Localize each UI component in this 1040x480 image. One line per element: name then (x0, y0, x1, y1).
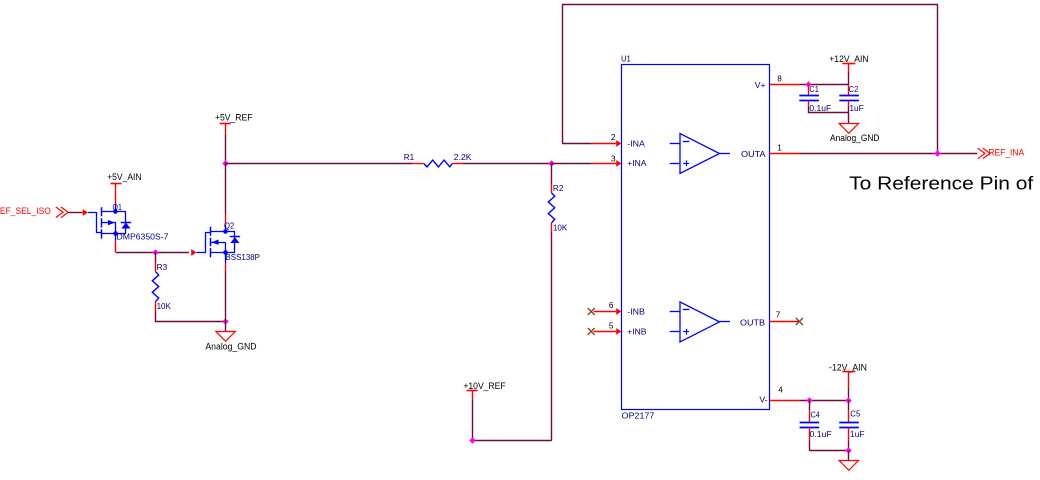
wire REF_SEL_ISO to Q1 gate (68, 212, 82, 214)
svg-text:BSS138P: BSS138P (226, 252, 261, 262)
wire junction down to Q2 drain (225, 163, 227, 215)
node junction C5 top (845, 397, 851, 403)
op-amp amplifier B symbol (680, 302, 720, 342)
wire +5V_REF junction to R1 (225, 163, 413, 165)
svg-text:10K: 10K (553, 223, 568, 233)
wire R2 down (551, 232, 553, 440)
resistor R2 (551, 163, 553, 183)
wire -12V_AIN down (848, 388, 850, 400)
svg-text:V-: V- (759, 394, 767, 404)
ground bottom right (839, 461, 858, 471)
transistor Q1 (88, 213, 102, 233)
svg-text:To Reference Pin of: To Reference Pin of (849, 173, 1034, 193)
wire OUTA to REF_INA (800, 153, 978, 155)
node junction C1 top (805, 81, 811, 87)
wire Q1 source to R3 and Q2 gate (116, 252, 189, 254)
svg-text:U1: U1 (621, 53, 631, 63)
resistor R3 (155, 252, 157, 262)
wire Q2 source down to ground junction (225, 271, 227, 322)
wire feedback loop top (562, 4, 938, 6)
capacitor C1 (808, 84, 810, 95)
svg-text:1uF: 1uF (850, 429, 865, 439)
wire C1 bottom to C2 bottom (809, 106, 849, 113)
op-amp amplifier A symbol (680, 134, 720, 174)
svg-text:+INB: +INB (627, 327, 646, 337)
pin 5 +INB no-connect (588, 328, 595, 335)
svg-text:V+: V+ (755, 80, 766, 90)
wire to pin 2 (562, 143, 592, 145)
svg-text:R2: R2 (553, 183, 564, 193)
svg-text:Analog_GND: Analog_GND (830, 133, 880, 143)
svg-text:OUTA: OUTA (741, 149, 766, 159)
wire feedback loop right vertical (937, 4, 939, 153)
wire +5V_REF down to junction (225, 134, 227, 163)
wire Q1 source pin (115, 241, 117, 253)
svg-text:+INA: +INA (627, 158, 646, 168)
capacitor C2 (848, 84, 850, 95)
svg-text:C4: C4 (811, 409, 821, 419)
node junction feedback/REF_INA (934, 150, 940, 156)
svg-text:C1: C1 (809, 84, 819, 94)
wire bottom horizontal to +10V_REF (472, 440, 552, 442)
svg-text:C5: C5 (850, 409, 860, 419)
svg-text:0.1uF: 0.1uF (809, 103, 831, 113)
pin 3 +INA (592, 163, 616, 165)
svg-text:2.2K: 2.2K (454, 152, 472, 162)
wire junction to pin 3 (552, 163, 592, 165)
node REF_SEL_ISO off-page connector (56, 207, 63, 218)
pin 7 OUTB no-connect (770, 321, 800, 323)
node junction R1/R2/+INA (548, 160, 554, 166)
node junction C5 bottom (845, 447, 851, 453)
svg-text:Q2: Q2 (224, 220, 234, 230)
pin 4 V- (770, 400, 800, 402)
wire feedback loop left vertical (562, 4, 564, 143)
svg-text:Q1: Q1 (113, 202, 123, 212)
svg-text:1: 1 (777, 144, 782, 153)
wire pin 4 to caps (800, 400, 849, 402)
svg-text:+5V_REF: +5V_REF (215, 111, 253, 122)
wire arrow into Q2 gate (191, 249, 196, 256)
wire Q2 source pin (225, 264, 227, 271)
wire pin 8 to caps (800, 84, 849, 86)
node junction at Analog_GND (222, 318, 228, 324)
node junction +10V_REF (469, 437, 475, 443)
svg-text:R3: R3 (157, 262, 168, 272)
wire C4 bottom to C5 bottom (809, 450, 849, 452)
pin 8 V+ (770, 84, 800, 86)
wire C2 bottom to ground (848, 106, 850, 123)
svg-text:REF_SEL_ISO: REF_SEL_ISO (0, 206, 51, 217)
wire R1 to R2 junction (463, 163, 552, 165)
wire R3 to ground row (156, 312, 226, 322)
svg-text:2: 2 (611, 133, 616, 142)
svg-text:-INA: -INA (627, 138, 645, 148)
capacitor C5 (848, 400, 850, 410)
resistor R1 (413, 163, 424, 165)
svg-text:R1: R1 (404, 152, 415, 162)
pin 2 -INA (592, 143, 616, 145)
wire +10V_REF down (472, 399, 474, 440)
svg-text:REF_INA: REF_INA (988, 148, 1024, 159)
wire arrow into Q1 gate (82, 212, 83, 214)
node junction C4 top (806, 397, 812, 403)
node REF_INA off-page connector (978, 148, 985, 159)
svg-text:OUTB: OUTB (740, 318, 765, 328)
capacitor C4 (809, 400, 811, 410)
svg-text:10K: 10K (157, 301, 172, 311)
svg-text:C2: C2 (849, 84, 859, 94)
svg-text:6: 6 (609, 301, 614, 310)
ground Analog_GND top right (839, 124, 858, 134)
pin 1 OUTA (770, 153, 800, 155)
svg-text:+12V_AIN: +12V_AIN (829, 53, 868, 64)
svg-text:8: 8 (777, 74, 782, 83)
transistor Q2 (196, 233, 210, 253)
svg-text:+10V_REF: +10V_REF (463, 380, 505, 391)
svg-text:+5V_AIN: +5V_AIN (107, 171, 141, 182)
wire to bottom ground (848, 450, 850, 460)
svg-text:0.1uF: 0.1uF (810, 429, 832, 439)
svg-text:-INB: -INB (627, 306, 645, 316)
svg-text:1uF: 1uF (849, 103, 863, 113)
svg-text:3: 3 (611, 154, 616, 163)
svg-text:7: 7 (776, 310, 781, 319)
svg-text:4: 4 (778, 385, 783, 394)
pin 6 -INB no-connect (588, 308, 595, 315)
svg-text:DMP6350S-7: DMP6350S-7 (117, 232, 169, 242)
wire +12V_AIN down (848, 72, 850, 84)
ground Analog_GND under Q2 (225, 321, 227, 331)
svg-text:5: 5 (609, 322, 614, 331)
node junction Q1-R3-Q2gate (152, 249, 158, 255)
node junction +5V_REF / R1 / Q2 drain (222, 160, 228, 166)
svg-text:OP2177: OP2177 (622, 410, 655, 420)
svg-text:Analog_GND: Analog_GND (205, 342, 256, 352)
op-amp U1 OP2177 body (622, 65, 770, 410)
